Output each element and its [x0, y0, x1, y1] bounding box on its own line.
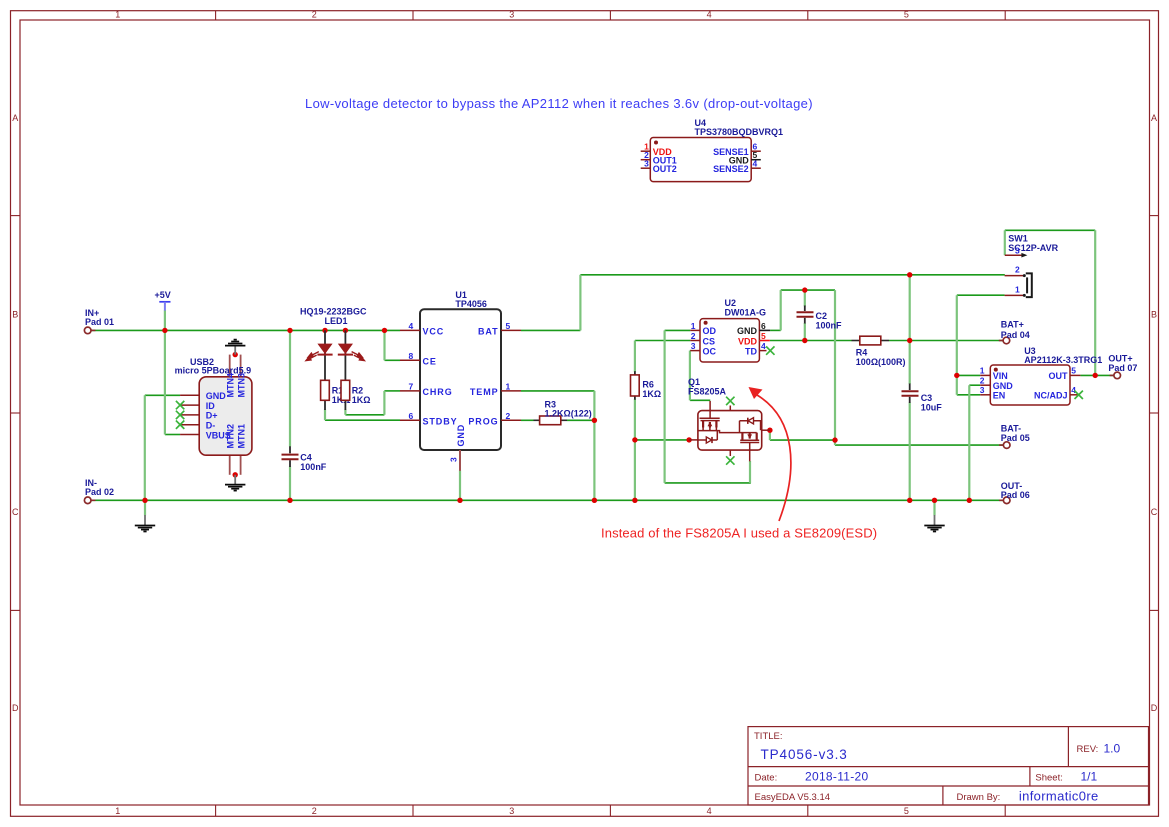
- wire BAT pin to riser: [521, 329, 580, 331]
- svg-text:CS: CS: [703, 336, 716, 346]
- left diode triangle: [706, 437, 711, 443]
- svg-text:B: B: [12, 310, 18, 320]
- svg-text:100nF: 100nF: [816, 321, 843, 331]
- wire U2 GND to riser: [770, 329, 781, 331]
- wire BAT- to pad: [835, 444, 1003, 446]
- svg-text:TP4056-v3.3: TP4056-v3.3: [761, 747, 848, 762]
- wire VIN horizontal: [957, 374, 980, 376]
- svg-text:BAT+: BAT+: [1001, 320, 1024, 330]
- svg-text:A: A: [12, 113, 18, 123]
- resistor R2: [341, 380, 370, 410]
- wire gnd stem mid: [933, 500, 935, 515]
- wire TEMP riser: [593, 391, 595, 500]
- resistor R4: [852, 336, 906, 367]
- svg-text:4: 4: [1071, 385, 1076, 395]
- wire +5V riser: [164, 310, 166, 434]
- pad IN-: [84, 497, 91, 504]
- frame row ticks right: [1150, 216, 1159, 611]
- svg-text:3: 3: [509, 806, 514, 816]
- svg-text:EN: EN: [993, 391, 1006, 401]
- left pin stub: [689, 439, 698, 441]
- LED D1 left: [306, 330, 333, 380]
- svg-text:VDD: VDD: [738, 336, 758, 346]
- svg-text:OUT: OUT: [1049, 371, 1069, 381]
- svg-text:LED1: LED1: [325, 316, 348, 326]
- svg-text:ID: ID: [206, 401, 216, 411]
- svg-text:Pad 02: Pad 02: [85, 487, 114, 497]
- left FET channel bars: [700, 417, 720, 419]
- right diode triangle: [748, 418, 753, 424]
- pin 3 stem U1: [459, 450, 461, 471]
- svg-text:7: 7: [409, 382, 414, 392]
- wire R6 riser to Q1 left pin: [635, 439, 689, 441]
- wire VDD rail right of R4: [889, 340, 1003, 342]
- svg-text:2: 2: [312, 806, 317, 816]
- svg-text:1/1: 1/1: [1081, 770, 1098, 784]
- right FET channel bars: [740, 439, 759, 441]
- wire gnd stem left: [144, 500, 146, 515]
- wire OC riser: [689, 351, 691, 401]
- svg-text:Low-voltage detector to bypass: Low-voltage detector to bypass the AP211…: [305, 96, 813, 111]
- svg-text:CHRG: CHRG: [423, 387, 453, 397]
- bottom stubs: [729, 450, 731, 456]
- svg-text:4: 4: [707, 806, 712, 816]
- svg-text:2: 2: [980, 375, 985, 385]
- wire C3 bottom riser: [909, 403, 911, 501]
- wire U1 GND stem: [459, 471, 461, 501]
- frame column ticks bottom: [216, 805, 1006, 816]
- svg-text:100Ω(100R): 100Ω(100R): [856, 357, 906, 367]
- frame row letters left: [12, 113, 19, 713]
- wire TEMP branch: [521, 390, 594, 392]
- svg-text:3: 3: [449, 457, 459, 462]
- svg-text:CE: CE: [423, 357, 437, 367]
- svg-text:1: 1: [1015, 284, 1020, 294]
- wire bottom GND rail: [91, 499, 1003, 501]
- wire BAT+ riser: [909, 275, 911, 384]
- svg-text:1.2KΩ(122): 1.2KΩ(122): [545, 409, 592, 419]
- svg-text:Drawn By:: Drawn By:: [957, 792, 1001, 803]
- svg-text:1: 1: [506, 382, 511, 392]
- wire GND top across: [781, 289, 835, 291]
- wire IN+ top rail: [91, 329, 400, 331]
- wire R2 bottom riser: [344, 410, 346, 415]
- svg-text:U2: U2: [725, 298, 737, 308]
- svg-text:OD: OD: [703, 326, 717, 336]
- svg-text:Instead of the FS8205A I used: Instead of the FS8205A I used a SE8209(E…: [601, 526, 877, 541]
- svg-text:TD: TD: [745, 346, 757, 356]
- wire PROG to R3: [521, 419, 534, 421]
- svg-text:3: 3: [1015, 246, 1020, 256]
- wire CE riser: [383, 330, 385, 360]
- svg-text:D: D: [1151, 703, 1158, 713]
- wire OC to Q1 gate: [690, 399, 710, 401]
- resistor R6: [631, 371, 662, 400]
- svg-text:4: 4: [409, 321, 414, 331]
- wire R3 to junction: [567, 419, 594, 421]
- svg-text:GND: GND: [206, 391, 227, 401]
- svg-text:5: 5: [761, 331, 766, 341]
- IC U3 AP2112K-3.3TRG1: [980, 346, 1102, 405]
- left diode line: [698, 431, 717, 440]
- pad OUT+: [1114, 372, 1121, 379]
- svg-text:1: 1: [115, 10, 120, 20]
- frame row ticks left: [11, 216, 21, 611]
- svg-text:Q1: Q1: [688, 377, 700, 387]
- svg-text:Pad 07: Pad 07: [1108, 363, 1137, 373]
- resistor R3: [534, 400, 592, 425]
- svg-text:1.0: 1.0: [1104, 742, 1121, 756]
- wire R2 to riser: [345, 414, 384, 416]
- svg-text:2: 2: [691, 331, 696, 341]
- wire R6 riser top: [634, 341, 636, 373]
- svg-text:BAT-: BAT-: [1001, 423, 1021, 433]
- frame row letters right: [1151, 113, 1158, 713]
- frame column numbers top: [115, 10, 909, 20]
- svg-text:R6: R6: [642, 379, 654, 389]
- svg-text:D: D: [12, 703, 19, 713]
- ground at IN- rail: [135, 515, 155, 532]
- svg-text:BAT: BAT: [478, 327, 499, 337]
- svg-text:OC: OC: [703, 346, 717, 356]
- wire U2 GND riser: [780, 290, 782, 330]
- svg-text:4: 4: [707, 10, 712, 20]
- svg-text:Pad 05: Pad 05: [1001, 433, 1030, 443]
- wire OUT to pad: [1080, 374, 1114, 376]
- wire OD horizontal: [665, 329, 691, 331]
- ground above USB (flipped): [225, 340, 245, 355]
- svg-text:5: 5: [506, 321, 511, 331]
- svg-text:+5V: +5V: [155, 290, 171, 300]
- capacitor C3: [902, 384, 943, 413]
- svg-text:EasyEDA V5.3.14: EasyEDA V5.3.14: [755, 792, 831, 803]
- top stubs: [709, 401, 711, 418]
- wire OC horizontal: [689, 350, 691, 352]
- svg-text:TITLE:: TITLE:: [754, 731, 783, 742]
- svg-text:3: 3: [509, 10, 514, 20]
- pad IN+: [84, 327, 91, 334]
- wire C2 riser top: [804, 290, 806, 306]
- svg-text:GND: GND: [737, 326, 758, 336]
- svg-text:PROG: PROG: [468, 416, 498, 426]
- right FET arrow down: [747, 434, 752, 439]
- svg-text:5: 5: [904, 10, 909, 20]
- svg-text:B: B: [1151, 310, 1157, 320]
- mount tab top: [229, 355, 231, 377]
- wire EN horizontal: [957, 394, 980, 396]
- svg-text:3: 3: [691, 341, 696, 351]
- JUNCTION DOTS: [142, 272, 1098, 503]
- svg-text:GND: GND: [993, 381, 1014, 391]
- svg-text:4: 4: [753, 159, 758, 169]
- wire OUT+ riser: [1094, 230, 1096, 375]
- svg-text:MTN1: MTN1: [237, 424, 247, 449]
- wire riser to CHRG: [384, 390, 400, 392]
- wire VBUS branch horizontal: [165, 434, 180, 436]
- svg-text:informatic0re: informatic0re: [1019, 789, 1099, 804]
- right stub: [762, 429, 770, 431]
- capacitor C2: [797, 306, 843, 331]
- wire C2 riser bottom: [804, 323, 806, 341]
- svg-text:1KΩ: 1KΩ: [642, 389, 661, 399]
- svg-text:Pad 01: Pad 01: [85, 317, 114, 327]
- wire R6 riser bottom: [634, 399, 636, 500]
- wire U3 GND horizontal: [969, 384, 980, 386]
- svg-text:TP4056: TP4056: [455, 299, 487, 309]
- svg-text:OUT+: OUT+: [1108, 354, 1132, 364]
- right edge link: [760, 421, 762, 430]
- wire CE branch horizontal: [385, 359, 401, 361]
- svg-text:C: C: [1151, 507, 1158, 517]
- left FET taps: [703, 421, 716, 428]
- svg-text:VIN: VIN: [993, 371, 1008, 381]
- svg-text:Pad 04: Pad 04: [1001, 330, 1030, 340]
- svg-text:TEMP: TEMP: [470, 387, 499, 397]
- svg-text:VCC: VCC: [423, 327, 445, 337]
- svg-text:4: 4: [761, 341, 766, 351]
- switch SW1 SC12P-AVR: [1005, 233, 1059, 297]
- IC U4 TPS3780BQDBVRQ1: [641, 118, 783, 182]
- svg-text:6: 6: [761, 321, 766, 331]
- svg-text:HQ19-2232BGC: HQ19-2232BGC: [300, 306, 367, 316]
- right diode line: [740, 421, 762, 433]
- svg-text:100nF: 100nF: [300, 462, 327, 472]
- resistor R1: [321, 380, 351, 410]
- svg-text:5: 5: [904, 806, 909, 816]
- svg-text:10uF: 10uF: [921, 403, 943, 413]
- left FET arrow up: [708, 422, 713, 427]
- svg-text:C4: C4: [300, 452, 312, 462]
- wire CHRG riser: [383, 391, 385, 415]
- svg-text:1: 1: [691, 321, 696, 331]
- wire Q1 right to BAT- riser: [770, 439, 835, 441]
- svg-text:FS8205A: FS8205A: [688, 386, 727, 396]
- svg-text:MTN4: MTN4: [226, 373, 236, 398]
- left FET source bus: [698, 431, 757, 433]
- svg-text:REV:: REV:: [1077, 744, 1099, 755]
- capacitor C4: [282, 446, 327, 472]
- svg-text:C: C: [12, 507, 19, 517]
- svg-text:NC/ADJ: NC/ADJ: [1034, 391, 1068, 401]
- frame column numbers bottom: [115, 806, 909, 816]
- wire OD riser: [663, 330, 665, 483]
- svg-text:STDBY: STDBY: [423, 416, 458, 426]
- ground mid (C3 area): [924, 515, 944, 532]
- wire USB GND riser: [144, 395, 146, 500]
- pad BAT+: [1003, 337, 1010, 344]
- title block: [748, 727, 1149, 805]
- ground below USB: [225, 475, 245, 491]
- wire GND-to-BAT- riser: [834, 290, 836, 445]
- wire Q1 gate riser: [749, 461, 751, 483]
- svg-text:A: A: [1151, 113, 1157, 123]
- wire R1 bottom riser: [324, 410, 326, 421]
- pad wire stubs: [91, 330, 1114, 500]
- annotation red arrow: [749, 387, 791, 521]
- svg-text:MTN2: MTN2: [226, 424, 236, 449]
- svg-text:C2: C2: [816, 311, 828, 321]
- connector USB2 micro 5PBoard5.9: [175, 355, 252, 475]
- wire U3 GND riser: [968, 385, 970, 500]
- svg-text:Date:: Date:: [755, 773, 778, 784]
- svg-text:Pad 06: Pad 06: [1001, 490, 1030, 500]
- power flag +5V: [155, 290, 171, 311]
- right FET taps: [742, 433, 756, 441]
- svg-text:R2: R2: [352, 385, 364, 395]
- svg-text:8: 8: [409, 351, 414, 361]
- svg-text:1: 1: [980, 366, 985, 376]
- wire C4 riser top: [289, 330, 291, 446]
- IC U2 DW01A-G: [690, 298, 770, 362]
- svg-text:5: 5: [1071, 366, 1076, 376]
- transistor Q1 FS8205A dual mosfet: [688, 377, 770, 462]
- LED D2 right: [338, 330, 365, 380]
- pad BAT-: [1003, 442, 1010, 449]
- pad OUT-: [1003, 497, 1010, 504]
- svg-text:2: 2: [312, 10, 317, 20]
- svg-text:R4: R4: [856, 348, 868, 358]
- wire Q1 right drop: [769, 430, 771, 440]
- wire STDBY from R1: [325, 419, 400, 421]
- svg-text:DW01A-G: DW01A-G: [725, 308, 767, 318]
- wire C4 riser bottom: [289, 467, 291, 501]
- svg-text:D-: D-: [206, 421, 216, 431]
- svg-text:SENSE2: SENSE2: [713, 164, 749, 174]
- svg-text:2: 2: [1015, 265, 1020, 275]
- svg-text:MTN3: MTN3: [237, 373, 247, 398]
- svg-text:2: 2: [506, 411, 511, 421]
- wire SW pin3 top: [1005, 229, 1095, 231]
- mount tab bottom: [229, 455, 231, 475]
- wire SW pin1 riser: [956, 295, 958, 395]
- svg-text:TPS3780BQDBVRQ1: TPS3780BQDBVRQ1: [695, 127, 784, 137]
- svg-text:3: 3: [644, 159, 649, 169]
- wire CS horizontal: [635, 340, 690, 342]
- svg-text:Sheet:: Sheet:: [1035, 773, 1062, 784]
- wire VDD rail: [770, 340, 852, 342]
- wire USB GND branch horizontal: [145, 394, 180, 396]
- svg-text:GND: GND: [456, 424, 466, 447]
- wire SW pin3 riser: [1004, 230, 1006, 255]
- svg-text:C3: C3: [921, 393, 933, 403]
- svg-text:D+: D+: [206, 411, 218, 421]
- svg-text:3: 3: [980, 385, 985, 395]
- svg-text:SW1: SW1: [1008, 233, 1028, 243]
- svg-text:2018-11-20: 2018-11-20: [805, 770, 869, 784]
- svg-text:1KΩ: 1KΩ: [352, 395, 371, 405]
- wire SW pin1 to riser: [957, 294, 1005, 296]
- svg-text:6: 6: [409, 411, 414, 421]
- svg-text:OUT2: OUT2: [653, 164, 677, 174]
- svg-text:AP2112K-3.3TRG1: AP2112K-3.3TRG1: [1024, 355, 1102, 365]
- svg-text:1: 1: [115, 806, 120, 816]
- wire BAT top rail: [580, 274, 1004, 276]
- IC U1 TP4056: [400, 290, 521, 471]
- wire BAT riser: [579, 275, 581, 331]
- wire OD loop bottom: [665, 482, 751, 484]
- no-connect X marks: [176, 346, 1083, 464]
- frame column ticks top: [216, 11, 1006, 20]
